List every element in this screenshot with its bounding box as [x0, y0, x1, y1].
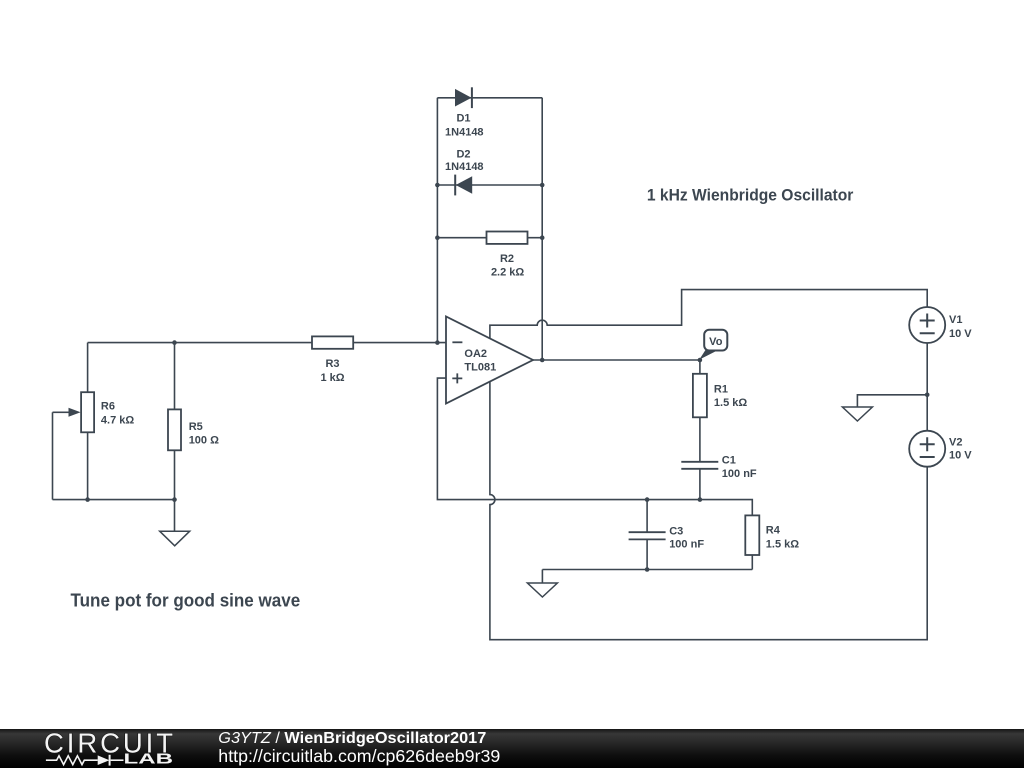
- svg-text:Tune pot for good sine wave: Tune pot for good sine wave: [71, 591, 301, 611]
- svg-text:R4: R4: [766, 525, 781, 537]
- svg-text:R6: R6: [101, 401, 115, 413]
- node D2 anode junction: [435, 183, 440, 188]
- wire: R5 ground wire: [174, 450, 176, 531]
- resistor R2: [487, 232, 528, 279]
- capacitor C3: [629, 525, 705, 550]
- node R5 bottom junction: [172, 497, 177, 502]
- ground (under R5): [160, 531, 190, 546]
- svg-text:G3YTZ / WienBridgeOscillator20: G3YTZ / WienBridgeOscillator2017: [218, 730, 486, 747]
- node op-amp output junction: [540, 358, 545, 363]
- svg-text:http://circuitlab.com/cp626dee: http://circuitlab.com/cp626deeb9r39: [218, 746, 500, 766]
- wire: output wire: [533, 359, 700, 361]
- logo resistor-diode glyph: [46, 755, 124, 766]
- resistor R5: [168, 409, 219, 450]
- svg-text:D1: D1: [456, 112, 470, 124]
- wire: inverting input wire: [88, 342, 446, 344]
- wire: mid ground stub: [541, 570, 543, 584]
- svg-text:TL081: TL081: [464, 362, 496, 374]
- node R5 top junction: [172, 340, 177, 345]
- wire: D1 top wire: [437, 97, 542, 99]
- svg-text:2.2 kΩ: 2.2 kΩ: [491, 266, 524, 278]
- svg-text:OA2: OA2: [464, 348, 487, 360]
- svg-text:10 V: 10 V: [949, 449, 972, 461]
- wire: V+ supply wire with hop: [490, 290, 927, 339]
- svg-text:100 Ω: 100 Ω: [189, 435, 219, 447]
- wire: C3 bottom wire: [646, 539, 648, 569]
- resistor R1: [693, 374, 747, 418]
- ground (mid): [527, 583, 557, 597]
- node Vo flag: [699, 330, 727, 360]
- node D2 cathode junction: [540, 183, 545, 188]
- node C3 bottom junction: [645, 567, 650, 572]
- diode D2: [445, 148, 484, 195]
- resistor R3: [312, 336, 353, 384]
- wire: V1-V2 wire: [926, 343, 928, 431]
- wire: C3 top wire: [646, 500, 648, 533]
- wire: R2 wire: [437, 237, 542, 239]
- svg-text:C1: C1: [722, 455, 736, 467]
- resistor R4: [745, 515, 799, 555]
- svg-text:1N4148: 1N4148: [445, 161, 484, 173]
- svg-text:1.5 kΩ: 1.5 kΩ: [766, 539, 799, 551]
- svg-text:1N4148: 1N4148: [445, 127, 484, 139]
- capacitor C1: [681, 455, 757, 480]
- footer bar: [0, 729, 1024, 768]
- wire: right feedback rail: [541, 98, 543, 360]
- wire: R5 top wire: [174, 343, 176, 410]
- svg-text:100 nF: 100 nF: [722, 468, 757, 480]
- wire: V- supply wire with hop: [490, 381, 927, 639]
- potentiometer R6: [69, 392, 135, 432]
- svg-text:R5: R5: [189, 421, 203, 433]
- op-amp OA2: [446, 317, 533, 404]
- node R2 left junction: [435, 235, 440, 240]
- ground (right): [842, 407, 872, 421]
- wire: supply ground stub: [857, 395, 927, 407]
- wire: R6 bottom wire: [87, 432, 89, 499]
- svg-text:R1: R1: [714, 383, 728, 395]
- wire: D2 wire: [437, 184, 542, 186]
- voltage source V2: [909, 431, 972, 467]
- wire: left feedback rail: [436, 98, 438, 343]
- svg-text:R2: R2: [500, 253, 514, 265]
- node inverting input junction: [435, 340, 440, 345]
- voltage source V1: [909, 307, 972, 343]
- wire: R1-C1 wire: [699, 417, 701, 462]
- svg-text:D2: D2: [456, 148, 470, 160]
- svg-text:V1: V1: [949, 314, 962, 326]
- diode D1: [445, 87, 484, 138]
- svg-text:V2: V2: [949, 436, 962, 448]
- svg-text:C3: C3: [669, 525, 683, 537]
- wire: non-inverting input wire to R4: [437, 378, 752, 515]
- svg-text:10 V: 10 V: [949, 328, 972, 340]
- svg-text:R3: R3: [325, 358, 339, 370]
- wire: R6 top wire: [87, 343, 89, 393]
- wire: R1 top wire: [699, 360, 701, 374]
- svg-text:1 kHz Wienbridge Oscillator: 1 kHz Wienbridge Oscillator: [647, 186, 854, 205]
- svg-text:4.7 kΩ: 4.7 kΩ: [101, 415, 134, 427]
- svg-text:1.5 kΩ: 1.5 kΩ: [714, 397, 747, 409]
- node C1 bottom junction: [698, 497, 703, 502]
- wire: bottom-left wire: [53, 499, 175, 501]
- svg-text:Vo: Vo: [709, 336, 723, 348]
- node C3 top junction: [645, 497, 650, 502]
- svg-text:100 nF: 100 nF: [669, 539, 704, 551]
- node supply midpoint junction: [925, 393, 930, 398]
- wire: C1 bottom wire: [699, 469, 701, 500]
- wire: wiper return wire: [52, 412, 54, 499]
- svg-text:LAB: LAB: [124, 751, 174, 768]
- wire: R6 wiper wire: [53, 411, 69, 413]
- node Vo junction: [698, 358, 703, 363]
- node R2 right junction: [540, 235, 545, 240]
- svg-text:1 kΩ: 1 kΩ: [320, 372, 344, 384]
- node R6 bottom junction: [85, 497, 90, 502]
- wire: R4 bottom wire: [751, 555, 753, 570]
- wire: bottom mid wire: [542, 569, 752, 571]
